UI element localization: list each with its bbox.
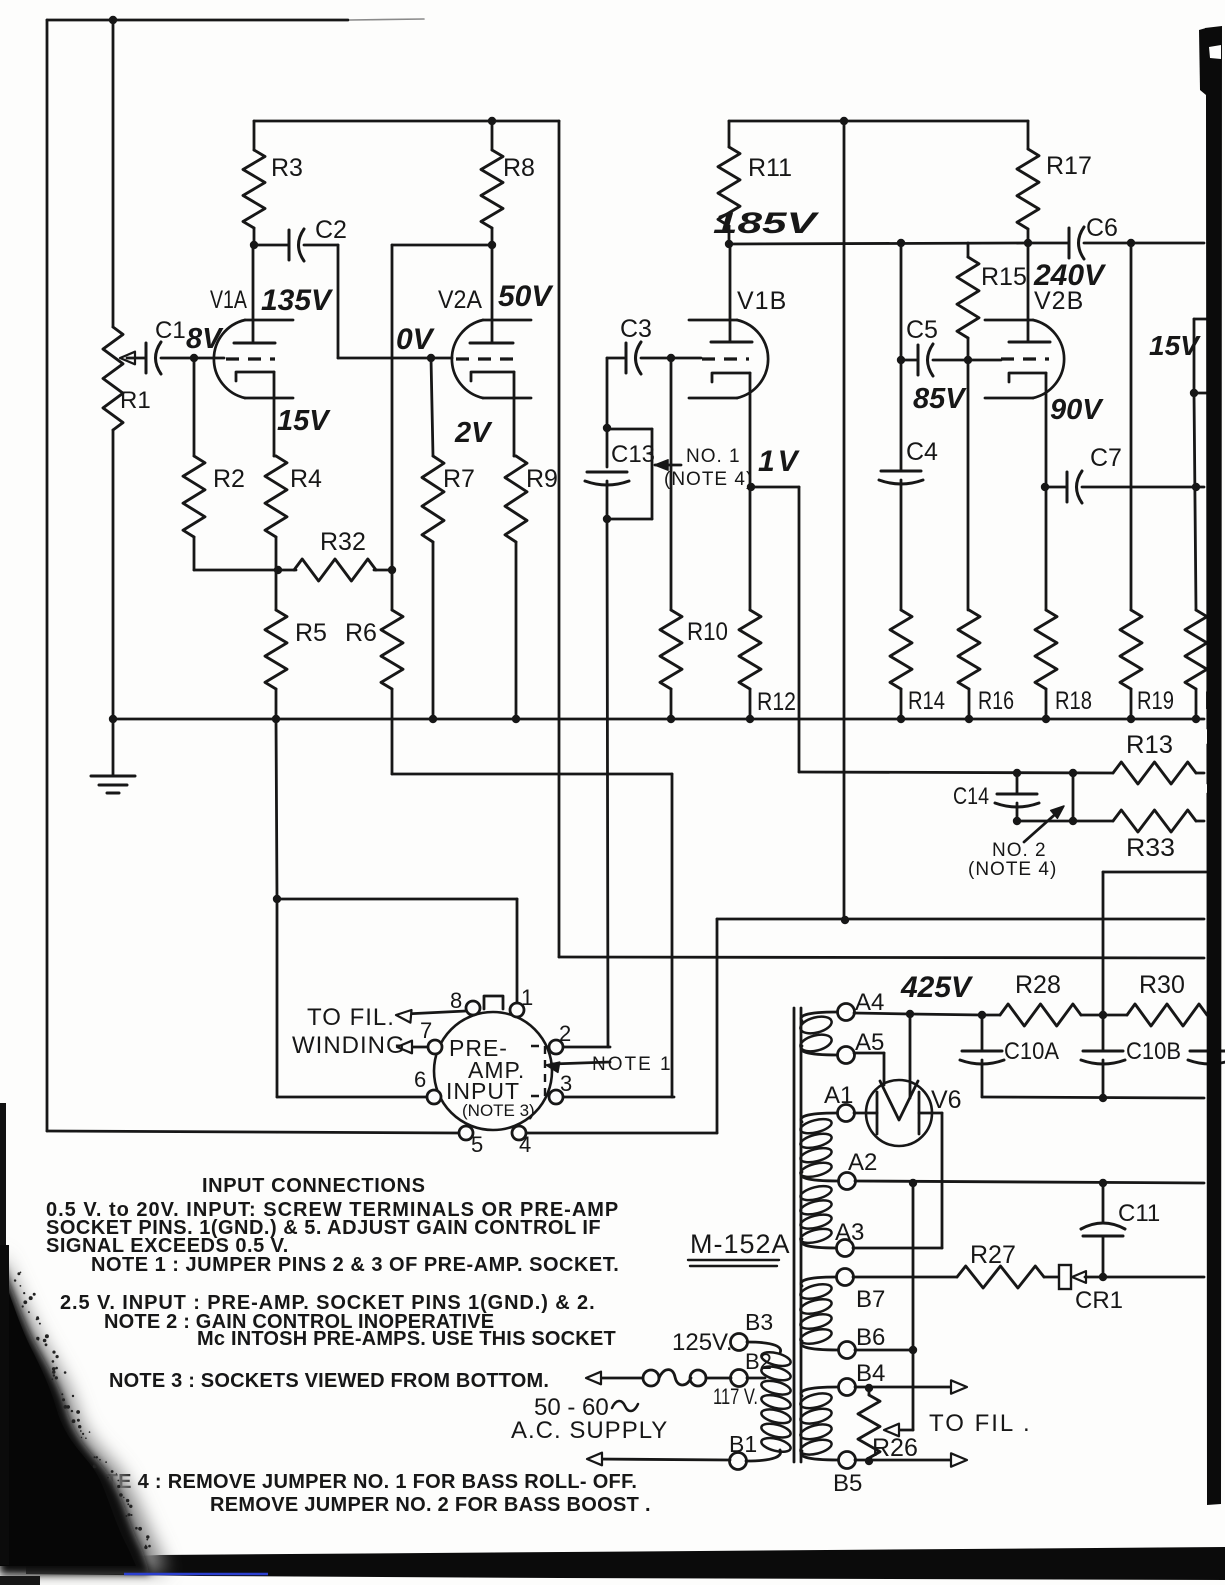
svg-text:TO FIL .: TO FIL . xyxy=(929,1410,1032,1437)
svg-text:C11: C11 xyxy=(1118,1200,1160,1227)
svg-text:NOTE 1 : JUMPER PINS 2 & 3: NOTE 1 : JUMPER PINS 2 & 3 OF PRE-AMP. S… xyxy=(91,1254,619,1276)
svg-text:425V: 425V xyxy=(900,971,974,1004)
svg-text:C1: C1 xyxy=(155,317,186,344)
svg-text:V1B: V1B xyxy=(737,287,787,315)
svg-text:A1: A1 xyxy=(824,1082,853,1109)
svg-text:C10B: C10B xyxy=(1126,1038,1181,1065)
svg-text:240V: 240V xyxy=(1033,259,1107,292)
svg-text:15V: 15V xyxy=(1149,330,1201,361)
svg-text:R12: R12 xyxy=(757,688,796,716)
svg-text:R27: R27 xyxy=(970,1241,1016,1269)
svg-text:2: 2 xyxy=(559,1021,571,1046)
svg-text:A3: A3 xyxy=(835,1219,864,1246)
svg-text:NO. 2: NO. 2 xyxy=(992,840,1047,861)
svg-text:R7: R7 xyxy=(443,465,475,493)
svg-text:R14: R14 xyxy=(908,687,945,715)
svg-text:1: 1 xyxy=(521,985,533,1010)
svg-text:V2A: V2A xyxy=(438,286,482,314)
svg-text:R11: R11 xyxy=(748,154,792,182)
svg-text:C6: C6 xyxy=(1086,214,1118,242)
svg-text:R32: R32 xyxy=(320,528,366,556)
svg-text:R8: R8 xyxy=(503,154,535,182)
svg-text:A.C. SUPPLY: A.C. SUPPLY xyxy=(511,1417,668,1444)
svg-text:0V: 0V xyxy=(396,323,436,356)
svg-text:R28: R28 xyxy=(1015,971,1061,999)
svg-text:117 V.: 117 V. xyxy=(713,1384,758,1409)
svg-text:C7: C7 xyxy=(1090,444,1122,472)
svg-text:R18: R18 xyxy=(1055,687,1092,715)
svg-text:R4: R4 xyxy=(290,465,322,493)
svg-text:135V: 135V xyxy=(261,284,334,317)
svg-text:85V: 85V xyxy=(913,383,967,415)
svg-text:R17: R17 xyxy=(1046,152,1092,180)
svg-text:Mc INTOSH PRE-AMPS. USE THIS: Mc INTOSH PRE-AMPS. USE THIS SOCKET xyxy=(197,1328,616,1350)
svg-text:1V: 1V xyxy=(758,445,801,478)
svg-text:B3: B3 xyxy=(745,1309,773,1335)
svg-text:V1A: V1A xyxy=(210,286,247,314)
svg-text:B4: B4 xyxy=(856,1360,885,1387)
svg-text:C4: C4 xyxy=(906,438,938,466)
svg-text:A2: A2 xyxy=(848,1149,877,1176)
svg-text:(NOTE 4): (NOTE 4) xyxy=(968,859,1057,880)
svg-text:C5: C5 xyxy=(906,316,938,344)
svg-text:R16: R16 xyxy=(978,687,1014,715)
svg-text:R1: R1 xyxy=(120,387,151,414)
svg-text:185V: 185V xyxy=(713,207,820,240)
svg-text:4: 4 xyxy=(519,1132,531,1157)
svg-text:NOTE 4 : REMOVE JUMPER NO.: NOTE 4 : REMOVE JUMPER NO. 1 FOR BASS RO… xyxy=(75,1471,637,1493)
svg-text:R10: R10 xyxy=(687,618,728,646)
svg-text:R19: R19 xyxy=(1137,687,1174,715)
svg-text:WINDING: WINDING xyxy=(292,1032,406,1059)
svg-text:(NOTE 4): (NOTE 4) xyxy=(664,469,753,490)
svg-text:R33: R33 xyxy=(1126,834,1175,862)
svg-text:NOTE 3 : SOCKETS VIEWED FRO: NOTE 3 : SOCKETS VIEWED FROM BOTTOM. xyxy=(109,1370,549,1392)
svg-text:B5: B5 xyxy=(833,1470,862,1497)
svg-text:7: 7 xyxy=(420,1018,432,1043)
svg-text:C14: C14 xyxy=(953,783,989,810)
svg-text:C3: C3 xyxy=(620,315,652,343)
svg-text:R15: R15 xyxy=(981,263,1027,291)
svg-text:M-152A: M-152A xyxy=(690,1229,791,1259)
svg-text:TO FIL.: TO FIL. xyxy=(307,1004,395,1031)
svg-text:R26: R26 xyxy=(872,1434,918,1462)
svg-text:2V: 2V xyxy=(454,417,493,449)
svg-text:125V.: 125V. xyxy=(672,1329,733,1356)
svg-text:R30: R30 xyxy=(1139,971,1185,999)
svg-text:15V: 15V xyxy=(277,405,331,437)
svg-text:R2: R2 xyxy=(213,465,245,493)
svg-text:3: 3 xyxy=(560,1071,572,1096)
svg-text:CR1: CR1 xyxy=(1075,1287,1123,1314)
svg-text:REMOVE JUMPER NO. 2 FOR BA: REMOVE JUMPER NO. 2 FOR BASS BOOST . xyxy=(210,1494,651,1516)
svg-text:B1: B1 xyxy=(729,1431,757,1457)
svg-text:R5: R5 xyxy=(295,619,327,647)
svg-text:B6: B6 xyxy=(856,1324,885,1351)
svg-text:C10A: C10A xyxy=(1004,1038,1059,1065)
svg-text:8: 8 xyxy=(450,988,462,1013)
svg-text:6: 6 xyxy=(414,1067,426,1092)
svg-text:R9: R9 xyxy=(526,465,558,493)
svg-text:C13: C13 xyxy=(611,441,655,468)
svg-text:B7: B7 xyxy=(856,1286,885,1313)
svg-text:R3: R3 xyxy=(271,154,303,182)
svg-text:50V: 50V xyxy=(498,280,554,313)
svg-text:NOTE 1: NOTE 1 xyxy=(592,1054,673,1075)
svg-text:R6: R6 xyxy=(345,619,377,647)
svg-text:90V: 90V xyxy=(1050,394,1104,426)
svg-text:INPUT CONNECTIONS: INPUT CONNECTIONS xyxy=(202,1175,426,1197)
svg-text:(NOTE 3): (NOTE 3) xyxy=(462,1101,535,1120)
svg-text:C2: C2 xyxy=(315,216,347,244)
svg-text:R13: R13 xyxy=(1126,731,1173,759)
svg-text:V6: V6 xyxy=(931,1086,962,1114)
svg-text:NO. 1: NO. 1 xyxy=(686,446,741,467)
svg-text:5: 5 xyxy=(471,1132,483,1157)
